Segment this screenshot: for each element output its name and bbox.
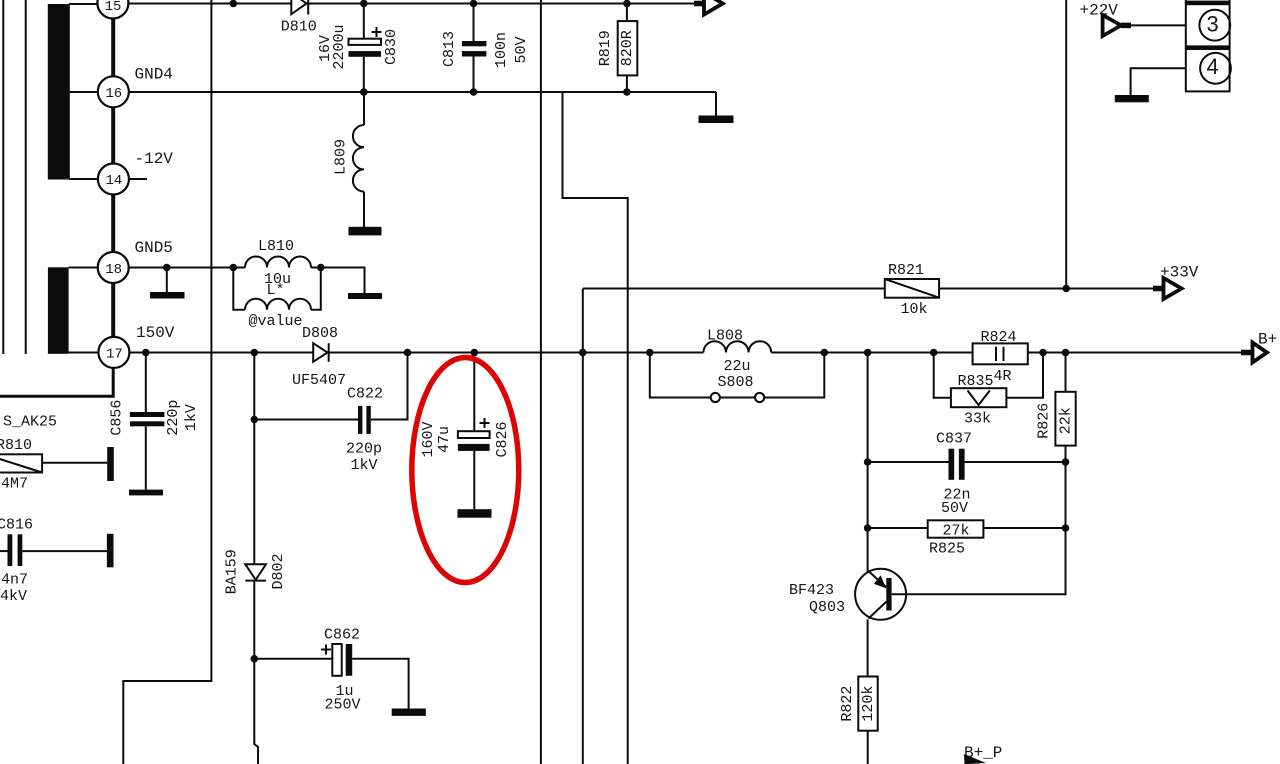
wire: top rail to C830 (363, 4, 365, 40)
svg-text:S808: S808 (718, 374, 754, 391)
svg-text:22u: 22u (724, 358, 751, 375)
svg-text:16: 16 (105, 86, 122, 102)
thick wire from pin 17 down and left to edge (0, 368, 113, 397)
node: C837 right (1062, 458, 1070, 466)
ground symbol below C826 (458, 509, 492, 518)
node: B+ rail / L808 right (821, 349, 829, 357)
thick pin bus segment 16-14 (111, 107, 115, 164)
node: B+ rail / C822 right (404, 349, 412, 357)
pin 15 (97, 0, 128, 19)
svg-text:L808: L808 (707, 328, 743, 345)
wire: B+ rail, R824 to arrow (1028, 352, 1241, 354)
wire: connector pin 4 to ground (1131, 68, 1186, 95)
wire: R825 left down to Q803 emitter (867, 528, 869, 572)
svg-text:R821: R821 (888, 262, 924, 279)
wire: B+ rail to C826 (473, 353, 475, 432)
svg-text:L810: L810 (258, 238, 294, 255)
wire: Q803 branch down from B+ rail (867, 353, 869, 463)
wire: +22V to connector pin 3 (1131, 24, 1186, 26)
svg-text:33k: 33k (964, 411, 991, 428)
wire: top rail to C813 (473, 4, 475, 42)
node: D802 branch / C862 (251, 655, 259, 663)
svg-text:1kV: 1kV (351, 457, 378, 474)
svg-text:Q803: Q803 (809, 599, 845, 616)
svg-text:C826: C826 (494, 421, 511, 457)
svg-text:@value: @value (249, 313, 303, 330)
diode D810 (291, 0, 308, 15)
wire: bar to pin 15 (69, 3, 98, 5)
wire: pin 15 top rail (128, 3, 694, 5)
node: B+ rail / D802 branch (251, 349, 259, 357)
capacitor C813 (462, 41, 486, 57)
wire: step bus from GND4 rail down (x=562 to x=628) (563, 92, 628, 764)
resistor R835 (parallel below, varistor V) (934, 353, 1043, 408)
terminal bar right of C816 (107, 534, 114, 568)
svg-text:R810: R810 (0, 437, 32, 454)
capacitor C862 (electrolytic, horizontal) (321, 644, 352, 676)
thick pin bus segment 15-16 (111, 17, 115, 77)
thick pin bus segment 14-18 (111, 194, 115, 253)
svg-text:C862: C862 (324, 627, 360, 644)
svg-text:220p: 220p (165, 400, 182, 436)
svg-text:17: 17 (106, 346, 123, 362)
svg-text:R824: R824 (981, 329, 1017, 346)
pin 14 (98, 164, 129, 195)
node: top rail / C813 (470, 0, 478, 7)
transformer winding bar (pins 18/17) (48, 267, 69, 354)
pin 18 (98, 252, 129, 283)
svg-text:D810: D810 (281, 19, 317, 36)
node: top rail / R819 (623, 0, 631, 7)
connector housing (cropped at top) (1186, 0, 1230, 91)
wire: C822 right lead up to B+ rail (371, 353, 408, 420)
wire: C813 to GND4 rail (473, 57, 475, 93)
svg-text:UF5407: UF5407 (292, 372, 346, 389)
capacitor C856 (130, 412, 165, 426)
node: C837 left (864, 458, 872, 466)
wire: R821 to +33V arrow (939, 288, 1154, 290)
node on top rail at x=233 (230, 0, 238, 7)
ground symbol right of L810 (348, 293, 382, 299)
svg-text:C822: C822 (347, 386, 383, 403)
svg-text:+22V: +22V (1080, 2, 1119, 20)
diode D808 (313, 343, 329, 362)
svg-text:120k: 120k (860, 686, 877, 722)
svg-text:100n: 100n (493, 32, 510, 68)
wire: B+ rail, L808 to R824 (771, 352, 972, 354)
wire: C830 node down to L809 (363, 92, 365, 125)
node: L810 left (230, 264, 238, 272)
thick pin bus segment 18-17 (111, 283, 115, 338)
svg-text:R819: R819 (597, 30, 614, 66)
svg-text:+33V: +33V (1160, 264, 1199, 282)
svg-text:L*: L* (267, 282, 285, 299)
ground symbol below L809 (349, 227, 382, 236)
wire: long vertical bus x=211 with jog to x=123 (123, 0, 211, 764)
node: D810 cathode / C830 top (360, 0, 368, 7)
node: B+ rail / Q803 branch (864, 349, 872, 357)
wire: B+ rail, D808 cathode to L808 (329, 352, 704, 354)
node: B+ rail / C856 (142, 349, 150, 357)
svg-text:D808: D808 (302, 325, 338, 342)
svg-text:50V: 50V (513, 36, 530, 63)
pin 17 (98, 337, 129, 368)
node GND4/R819 (623, 88, 631, 96)
wire: C816 to terminal bar (22, 550, 107, 552)
wire: vertical bus x=583 down from R821 line (582, 289, 584, 764)
diode D802 (BA159, pointing down) (245, 564, 266, 580)
wire: L810 right to ground (321, 268, 365, 294)
svg-text:22k: 22k (1058, 407, 1075, 434)
resistor R825 (868, 520, 1066, 537)
resistor R819 (618, 21, 638, 75)
svg-text:C813: C813 (441, 31, 458, 67)
ground symbol GND4 (699, 116, 734, 124)
svg-text:3: 3 (1207, 12, 1219, 37)
connector pin 3 contact (1199, 10, 1230, 41)
node: R825 left (864, 524, 872, 532)
svg-text:R822: R822 (839, 686, 856, 722)
svg-text:160V: 160V (420, 421, 437, 457)
ground symbol below C862 (392, 709, 426, 716)
svg-text:2200u: 2200u (331, 24, 348, 69)
resistor R822 (858, 677, 877, 731)
svg-text:L809: L809 (333, 139, 350, 175)
svg-text:-12V: -12V (135, 150, 174, 168)
wire: bar to pin 17 (69, 352, 99, 354)
svg-text:250V: 250V (325, 697, 361, 714)
wire: GND4 rail drop to ground (715, 92, 717, 116)
svg-text:10k: 10k (901, 301, 928, 318)
node: B+ rail / R824-R835 left (930, 349, 938, 357)
svg-text:C856: C856 (109, 400, 126, 436)
svg-text:4R: 4R (994, 368, 1012, 385)
wire: stub right of pin 14 (129, 178, 147, 180)
svg-text:R826: R826 (1036, 403, 1053, 439)
inductor L809 (353, 125, 364, 192)
resistor R826 (1055, 353, 1075, 463)
svg-text:C816: C816 (0, 516, 33, 533)
svg-text:R835: R835 (958, 373, 994, 390)
wire: 150V/B+ rail, pin 17 to D808 anode (129, 352, 313, 354)
node GND4/C830 (360, 88, 368, 96)
svg-text:B+: B+ (1258, 331, 1277, 349)
wire: D802 cathode down with jog at bottom (254, 581, 258, 764)
capacitor C830 (electrolytic) (349, 27, 382, 57)
svg-text:14: 14 (105, 173, 122, 189)
wire: to C856 (145, 353, 147, 413)
wire: C837 left lead (868, 461, 949, 463)
node: B+ rail / L808 left (646, 349, 654, 357)
wire: D802 branch down from B+ rail (253, 353, 255, 565)
svg-text:18: 18 (105, 262, 122, 278)
wire: C837 right lead (965, 461, 1066, 463)
arrow B+ at right edge (1241, 343, 1267, 363)
switch S808 (parallel with L808) (650, 353, 825, 403)
capacitor C822 (358, 406, 371, 434)
wire: C856 to ground (145, 426, 147, 489)
transformer winding bar (pins 15/16/14) (48, 4, 70, 180)
svg-text:BF423: BF423 (789, 582, 834, 599)
pin 16 (98, 76, 129, 107)
red highlight ellipse around C826 (412, 358, 519, 583)
node: L810 right (317, 264, 325, 272)
wire: Q803 base to right vertical (892, 528, 1066, 594)
wire: L809 to ground (363, 192, 365, 227)
wire: top rail to R819 (626, 4, 628, 22)
node: B+ rail / R824-R835 right (1039, 349, 1047, 357)
wire: long vertical bus x=541 (540, 0, 542, 764)
svg-text:C830: C830 (383, 29, 400, 65)
node GND5 ground branch (163, 264, 171, 272)
capacitor C816 (cropped at left) (0, 534, 22, 566)
svg-text:15: 15 (105, 0, 122, 15)
wire: R822 to bottom edge (867, 731, 869, 764)
svg-text:220p: 220p (346, 440, 382, 457)
svg-text:1kV: 1kV (183, 404, 200, 431)
svg-text:820R: 820R (619, 30, 636, 66)
node: +33V line / vertical bus (1062, 285, 1070, 293)
wire: GND5 rail from pin 18 (129, 267, 234, 269)
node: B+ rail / R821 branch (579, 349, 587, 357)
transistor Q803 (BF423 PNP) (855, 569, 906, 620)
wire: C822 left lead (254, 419, 358, 421)
svg-text:D802: D802 (270, 553, 287, 589)
node: R825 right (1062, 524, 1070, 532)
ground symbol below C856 (129, 490, 163, 496)
wire: GND5 drop to ground (166, 268, 168, 293)
inductor L810 main winding (233, 257, 320, 268)
terminal bar right of R810 (107, 447, 114, 481)
wire: second cropped vertical bus at left (25, 0, 27, 354)
ground symbol GND5 (150, 292, 185, 299)
wire: C830 to GND4 rail (363, 57, 365, 92)
resistor R824 (in line) (973, 343, 1028, 364)
node: B+ rail / C826 (471, 349, 479, 357)
inductor L810 coupled winding (below) (233, 268, 320, 310)
node: C822 left junction (251, 416, 259, 424)
resistor R810 (cropped at left) (0, 454, 42, 472)
wire: C862 to ground (352, 659, 408, 709)
svg-text:GND5: GND5 (135, 239, 173, 257)
wire: GND4 rail from pin 16 (129, 91, 716, 93)
svg-text:150V: 150V (136, 324, 175, 342)
capacitor C837 (949, 449, 965, 480)
wire: R821 line left segment (583, 288, 885, 290)
svg-text:4M7: 4M7 (1, 476, 28, 493)
wire: bar to pin 14 (69, 178, 98, 180)
svg-text:47u: 47u (436, 426, 453, 453)
node GND4/C813 (470, 88, 478, 96)
svg-text:50V: 50V (941, 500, 968, 517)
wire: bar to pin 16 (69, 91, 98, 93)
wire: bar to pin 18 (69, 267, 98, 269)
arrow B+_P (diagonal, cropped) (964, 754, 986, 764)
svg-text:GND4: GND4 (135, 66, 173, 84)
svg-text:4n7: 4n7 (1, 571, 28, 588)
svg-text:C837: C837 (936, 431, 972, 448)
wire: R810 to terminal bar (42, 462, 107, 464)
svg-text:BA159: BA159 (224, 549, 241, 594)
ground symbol at pin 4 (1115, 95, 1149, 102)
svg-text:R825: R825 (929, 541, 965, 558)
svg-text:27k: 27k (943, 523, 970, 540)
wire: right vertical C837 to R825 (1065, 462, 1067, 528)
connector pin 4 contact (1200, 53, 1231, 84)
wire: cropped vertical bus at far left (2, 0, 4, 354)
node: B+ rail / R826 (1062, 349, 1070, 357)
connector separator above pin 3 (1186, 1, 1230, 6)
svg-text:4: 4 (1207, 54, 1219, 79)
arrow +33V (1153, 278, 1182, 299)
wire: left vertical C837 to R825 (867, 462, 869, 528)
svg-text:S_AK25: S_AK25 (3, 414, 57, 431)
resistor R821 (885, 279, 939, 298)
arrow +22V (1103, 15, 1131, 36)
capacitor C826 (electrolytic) (458, 418, 490, 451)
wire: C826 to ground (473, 451, 475, 509)
arrow output at top rail (694, 0, 723, 15)
connector separator between pins 3 and 4 (1186, 45, 1230, 50)
wire: long vertical bus x=1066 from top (1065, 0, 1067, 289)
svg-text:4kV: 4kV (0, 588, 27, 605)
inductor L808 (703, 341, 771, 352)
wire: Q803 collector down (867, 620, 869, 677)
wire: R819 to GND4 rail (626, 75, 628, 92)
wire: to C862 (254, 658, 332, 660)
